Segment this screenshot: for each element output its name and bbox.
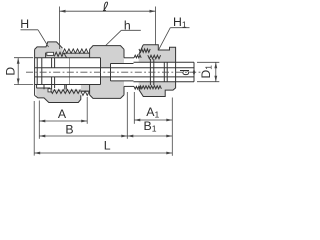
svg-text:B1: B1 — [144, 119, 157, 134]
right thread bottom — [134, 86, 141, 89]
dimension B — [39, 122, 127, 137]
bore lines big — [35, 58, 101, 85]
dimension B1 — [127, 119, 172, 137]
tube end faint line — [69, 58, 71, 85]
right nut fill — [139, 45, 176, 97]
left nut outline — [35, 42, 81, 103]
dimension A1 — [134, 105, 172, 121]
right tube outline — [134, 62, 195, 81]
dimension d — [180, 68, 196, 77]
dimension A — [39, 107, 87, 122]
left nut internal lines — [37, 58, 67, 90]
body outline — [90, 46, 124, 99]
right nut internal lines — [150, 59, 167, 85]
ferrule serration top — [54, 52, 66, 57]
svg-text:A: A — [58, 107, 67, 121]
svg-text:B: B — [65, 122, 73, 136]
label H — [20, 17, 48, 47]
svg-text:D: D — [4, 67, 18, 76]
body hex fill — [90, 46, 124, 99]
svg-text:D1: D1 — [199, 65, 214, 79]
body internal lines — [101, 58, 111, 85]
label h — [106, 18, 141, 45]
left thread shank fill — [63, 53, 90, 91]
dimension D1 — [197, 62, 219, 81]
centerline — [26, 71, 201, 73]
right thread top — [134, 55, 141, 58]
counterbore lines — [111, 64, 134, 81]
left nut body fill — [35, 42, 81, 103]
nut skirt notch — [48, 89, 51, 92]
bore lines small — [35, 68, 194, 77]
bore channel white — [35, 58, 194, 88]
svg-text:L: L — [104, 139, 111, 153]
dimension l — [60, 2, 156, 49]
svg-text:d: d — [180, 69, 192, 75]
right nut outline — [139, 45, 176, 97]
ferrule washer top — [46, 52, 54, 57]
extension lines bottom — [34, 92, 172, 156]
svg-text:H: H — [20, 17, 29, 31]
left thread bottom — [50, 90, 89, 96]
dimension D — [4, 58, 34, 85]
dimension L — [34, 139, 172, 155]
label H1 — [159, 15, 190, 50]
right nut female thread top — [139, 49, 161, 59]
left thread top — [63, 49, 90, 53]
right nut female thread bottom — [139, 86, 161, 89]
svg-text:A1: A1 — [146, 105, 159, 120]
neck lines — [124, 58, 134, 87]
